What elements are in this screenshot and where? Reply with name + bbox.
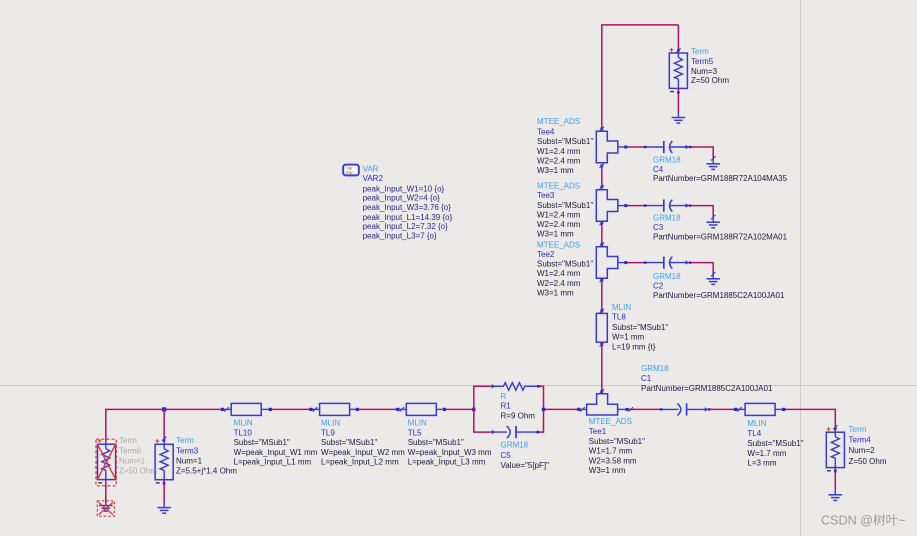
main wire left segment with junction	[106, 407, 223, 411]
wire+capacitor C2 branch	[618, 257, 716, 279]
svg-text:Term: Term	[176, 436, 194, 445]
svg-text:L=peak_Input_L1 mm: L=peak_Input_L1 mm	[234, 458, 312, 467]
svg-text:PartNumber=GRM1885C2A100JA01: PartNumber=GRM1885C2A100JA01	[641, 384, 773, 393]
wire Term6 to ground	[105, 480, 107, 503]
ground below Term4	[829, 495, 843, 501]
svg-text:Z=50 Ohm: Z=50 Ohm	[849, 457, 887, 466]
svg-text:MTEE_ADS: MTEE_ADS	[589, 417, 632, 426]
svg-text:Subst="MSub1": Subst="MSub1"	[612, 323, 668, 332]
svg-text:Term6: Term6	[119, 447, 142, 456]
svg-text:PartNumber=GRM188R72A104MA35: PartNumber=GRM188R72A104MA35	[653, 174, 788, 183]
svg-text:MTEE_ADS: MTEE_ADS	[537, 181, 580, 190]
watermark	[821, 513, 906, 528]
svg-text:Z=50 Ohm: Z=50 Ohm	[691, 76, 729, 85]
svg-text:Tee1: Tee1	[589, 427, 607, 436]
ground below Term6 deactivated	[97, 501, 114, 516]
svg-text:CSDN @树叶~: CSDN @树叶~	[821, 513, 906, 528]
svg-text:Num=1: Num=1	[176, 456, 203, 465]
svg-text:TL5: TL5	[408, 428, 422, 437]
svg-text:GRM18: GRM18	[501, 441, 529, 450]
wire top horizontal from Tee4 column to Term5	[602, 24, 679, 26]
resistor R1 on box top edge	[491, 383, 540, 391]
wire junction to Term3	[162, 409, 166, 441]
wire Term5 drop from top wire	[676, 25, 680, 53]
svg-text:Z=5.5+j*1.4 Ohm: Z=5.5+j*1.4 Ohm	[176, 466, 237, 475]
label C2	[653, 272, 785, 300]
svg-text:Num=1: Num=1	[119, 456, 146, 465]
svg-text:Subst="MSub1": Subst="MSub1"	[408, 438, 464, 447]
svg-text:peak_Input_W3=3.76 {o}: peak_Input_W3=3.76 {o}	[363, 203, 452, 212]
wire Term3 to ground	[163, 480, 166, 508]
label TL10	[234, 418, 318, 466]
label Tee4	[537, 117, 593, 175]
svg-text:peak_Input_W1=10 {o}: peak_Input_W1=10 {o}	[363, 184, 445, 193]
svg-text:Term4: Term4	[849, 436, 872, 445]
svg-text:Value="5[pF]": Value="5[pF]"	[501, 461, 550, 470]
wire Term5 to ground	[677, 88, 680, 111]
var equations	[363, 184, 453, 240]
svg-text:GRM18: GRM18	[653, 214, 681, 223]
svg-text:W=1 mm: W=1 mm	[612, 333, 645, 342]
capacitor C5 on box bottom edge	[491, 426, 539, 438]
label VAR2	[363, 165, 384, 183]
wire top-left vertical down to Tee4	[601, 24, 603, 129]
svg-text:C4: C4	[653, 165, 664, 174]
wire+capacitor C4 branch	[618, 141, 716, 164]
label Term6	[119, 436, 157, 475]
svg-text:W1=2.4 mm: W1=2.4 mm	[537, 210, 581, 219]
wire TL4 to Term4	[785, 409, 838, 430]
svg-text:Tee3: Tee3	[537, 191, 555, 200]
svg-text:Subst="MSub1": Subst="MSub1"	[537, 201, 593, 210]
mtee Tee2	[596, 247, 618, 278]
label R1	[501, 392, 536, 421]
svg-text:W2=2.4 mm: W2=2.4 mm	[537, 279, 581, 288]
svg-text:R=9 Ohm: R=9 Ohm	[501, 412, 536, 421]
label TL8	[612, 303, 668, 351]
svg-text:peak_Input_W2=4 {o}: peak_Input_W2=4 {o}	[363, 194, 441, 203]
svg-text:W=1.7 mm: W=1.7 mm	[747, 449, 786, 458]
svg-text:Num=2: Num=2	[849, 446, 876, 455]
svg-text:W2=2.4 mm: W2=2.4 mm	[537, 220, 581, 229]
mlin TL4	[745, 403, 785, 415]
label C3	[653, 214, 788, 242]
mlin TL8 vertical	[596, 313, 607, 342]
svg-text:W3=1 mm: W3=1 mm	[589, 466, 626, 475]
svg-text:R1: R1	[501, 401, 512, 410]
wire TL10 to TL9	[272, 408, 312, 410]
svg-text:W3=1 mm: W3=1 mm	[537, 166, 574, 175]
svg-text:PartNumber=GRM1885C2A100JA01: PartNumber=GRM1885C2A100JA01	[653, 291, 785, 300]
svg-text:TL4: TL4	[747, 429, 761, 438]
wire RC box to Tee1	[542, 407, 587, 411]
wire TL8 to Tee1	[600, 342, 604, 394]
ground below Term5	[672, 111, 686, 123]
svg-text:L=3 mm: L=3 mm	[747, 459, 776, 468]
capacitor C1	[677, 403, 686, 415]
svg-text:W3=1 mm: W3=1 mm	[537, 229, 574, 238]
ground below Term3	[157, 508, 171, 514]
label C4	[653, 156, 788, 184]
svg-text:Num=3: Num=3	[691, 67, 718, 76]
svg-text:Term: Term	[119, 436, 137, 445]
svg-text:MTEE_ADS: MTEE_ADS	[537, 117, 580, 126]
svg-text:TL9: TL9	[321, 428, 335, 437]
svg-text:MLIN: MLIN	[747, 419, 766, 428]
svg-text:peak_Input_L2=7.32 {o}: peak_Input_L2=7.32 {o}	[363, 222, 449, 231]
svg-text:Subst="MSub1": Subst="MSub1"	[321, 438, 377, 447]
svg-text:Z=50 Ohm: Z=50 Ohm	[119, 466, 157, 475]
ground of C3	[706, 222, 720, 228]
svg-text:Term3: Term3	[176, 447, 199, 456]
svg-text:GRM18: GRM18	[641, 364, 669, 373]
label TL9	[321, 418, 405, 466]
svg-text:W3=1 mm: W3=1 mm	[537, 288, 574, 297]
pin marks TL9 left	[309, 407, 317, 411]
pin marks TL10 left	[221, 407, 229, 411]
svg-text:W=peak_Input_W3 mm: W=peak_Input_W3 mm	[408, 448, 492, 457]
label C5	[501, 441, 550, 471]
svg-text:L=peak_Input_L3 mm: L=peak_Input_L3 mm	[408, 458, 486, 467]
svg-text:Subst="MSub1": Subst="MSub1"	[537, 137, 593, 146]
svg-text:Eqn: Eqn	[346, 170, 354, 175]
term Term4	[826, 427, 844, 471]
svg-text:C1: C1	[641, 374, 652, 383]
svg-text:L=19 mm {t}: L=19 mm {t}	[612, 342, 656, 351]
svg-text:W1=2.4 mm: W1=2.4 mm	[537, 147, 581, 156]
svg-text:Subst="MSub1": Subst="MSub1"	[747, 439, 803, 448]
wire Tee2 to TL8	[600, 278, 604, 313]
wire main to Term6	[105, 409, 107, 442]
mlin TL9	[313, 403, 360, 415]
svg-text:W2=3.58 mm: W2=3.58 mm	[589, 456, 637, 465]
label Term4	[849, 425, 887, 466]
svg-text:MLIN: MLIN	[408, 418, 427, 427]
wire Tee4 to Tee3	[600, 164, 604, 190]
svg-text:C3: C3	[653, 223, 664, 232]
wire C1 to TL4	[687, 407, 746, 411]
wire Tee3 to Tee2	[600, 221, 604, 247]
svg-text:W=peak_Input_W1 mm: W=peak_Input_W1 mm	[234, 448, 318, 457]
label Tee1	[589, 417, 645, 475]
label Term5	[691, 47, 729, 85]
svg-text:W=peak_Input_W2 mm: W=peak_Input_W2 mm	[321, 448, 405, 457]
svg-text:MLIN: MLIN	[612, 303, 631, 312]
svg-text:Subst="MSub1": Subst="MSub1"	[234, 438, 290, 447]
svg-text:W1=2.4 mm: W1=2.4 mm	[537, 269, 581, 278]
svg-text:R: R	[501, 392, 507, 401]
term Term6 deactivated	[96, 439, 116, 486]
svg-text:GRM18: GRM18	[653, 272, 681, 281]
svg-text:PartNumber=GRM188R72A102MA01: PartNumber=GRM188R72A102MA01	[653, 233, 788, 242]
ground of C4	[706, 164, 720, 170]
svg-text:VAR: VAR	[363, 165, 379, 174]
parallel RC box outline	[474, 386, 544, 432]
svg-text:W1=1.7 mm: W1=1.7 mm	[589, 447, 633, 456]
mlin TL10	[224, 403, 272, 415]
wire+capacitor C3 branch	[618, 200, 716, 223]
mtee Tee3	[596, 190, 618, 222]
svg-text:MTEE_ADS: MTEE_ADS	[537, 241, 580, 250]
svg-text:W2=2.4 mm: W2=2.4 mm	[537, 157, 581, 166]
svg-text:Subst="MSub1": Subst="MSub1"	[589, 437, 645, 446]
mtee Tee4	[596, 127, 618, 163]
wire TL5 to RC box	[446, 408, 476, 411]
svg-text:MLIN: MLIN	[234, 418, 253, 427]
label TL5	[408, 418, 492, 466]
term Term5	[669, 48, 687, 92]
wire Term4 to ground	[834, 468, 837, 495]
term Term3	[155, 439, 173, 483]
svg-text:peak_Input_L1=14.39 {o}: peak_Input_L1=14.39 {o}	[363, 213, 453, 222]
label Tee3	[537, 181, 593, 238]
wire TL9 to TL5	[359, 408, 398, 410]
svg-text:Tee2: Tee2	[537, 250, 555, 259]
svg-text:VAR2: VAR2	[363, 174, 384, 183]
svg-text:Subst="MSub1": Subst="MSub1"	[537, 260, 593, 269]
mtee Tee1 arm up	[587, 394, 618, 415]
svg-text:Tee4: Tee4	[537, 127, 555, 136]
label C1	[641, 364, 773, 393]
label TL4	[747, 419, 803, 468]
svg-text:MLIN: MLIN	[321, 418, 340, 427]
svg-text:Term: Term	[691, 47, 709, 56]
svg-text:C5: C5	[501, 451, 512, 460]
pin marks TL5 left	[396, 407, 404, 411]
svg-text:peak_Input_L3=7 {o}: peak_Input_L3=7 {o}	[363, 232, 437, 241]
label Tee2	[537, 241, 593, 298]
svg-text:Term5: Term5	[691, 57, 714, 66]
svg-text:TL10: TL10	[234, 428, 253, 437]
svg-text:Term: Term	[849, 425, 867, 434]
label Term3	[176, 436, 237, 475]
wire Tee1 to C1	[618, 407, 679, 411]
mlin TL5	[399, 403, 446, 415]
svg-text:L=peak_Input_L2 mm: L=peak_Input_L2 mm	[321, 458, 399, 467]
var equation block icon	[343, 165, 359, 176]
svg-text:C2: C2	[653, 282, 664, 291]
svg-text:GRM18: GRM18	[653, 156, 681, 165]
ground of C2	[706, 279, 720, 285]
svg-text:TL8: TL8	[612, 313, 626, 322]
